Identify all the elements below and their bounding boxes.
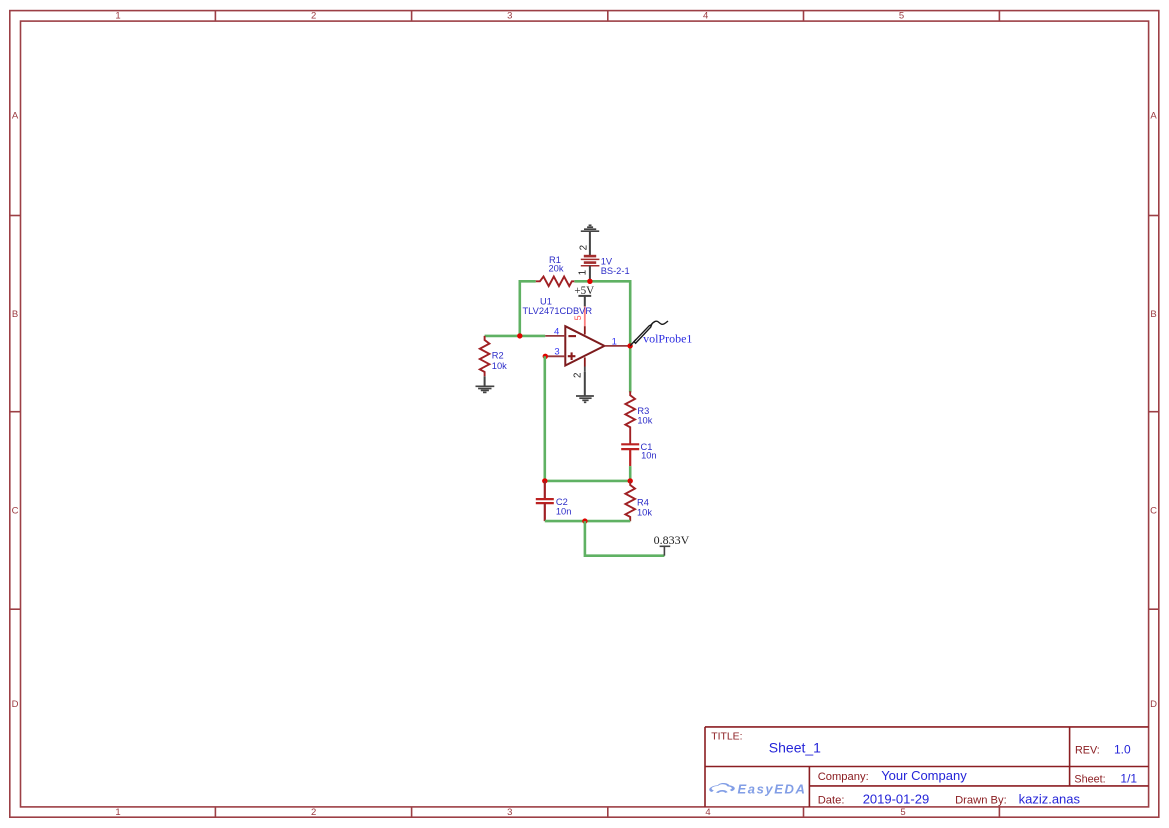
probe volProbe1 (630, 321, 668, 346)
svg-text:2019-01-29: 2019-01-29 (863, 791, 930, 806)
svg-text:Sheet_1: Sheet_1 (769, 740, 821, 756)
capacitor C2 10n (536, 481, 554, 521)
wire (R2 to ground) (484, 376, 486, 386)
svg-text:1: 1 (115, 11, 120, 22)
wire (R2 top to pin 4) (485, 335, 546, 338)
wire (battery pin 1 stem) (589, 266, 591, 282)
svg-text:Drawn By:: Drawn By: (955, 794, 1007, 806)
svg-text:2: 2 (573, 373, 584, 378)
svg-text:2: 2 (311, 11, 316, 22)
wire (pin 3 down to C2/R4 row) (543, 356, 546, 481)
resistor R1 20k (536, 277, 574, 287)
svg-text:TITLE:: TITLE: (711, 732, 742, 743)
wire (R1 left to feedback node) (520, 281, 536, 336)
EasyEDA logo (709, 781, 806, 796)
svg-text:C: C (12, 506, 19, 517)
svg-text:10k: 10k (492, 361, 507, 371)
op-amp body (565, 326, 604, 365)
svg-text:C: C (1150, 506, 1157, 517)
svg-text:5: 5 (573, 315, 583, 320)
svg-text:1/1: 1/1 (1120, 771, 1137, 785)
wire (R1 right to battery node to output column) (574, 281, 630, 392)
wire (bottom node to net flag) (585, 521, 665, 556)
capacitor C1 10n (621, 444, 639, 466)
junction (feedback / R2 / pin 4) (517, 333, 522, 338)
pin 1 (output) (604, 345, 628, 347)
svg-text:kaziz.anas: kaziz.anas (1019, 791, 1081, 806)
svg-text:5: 5 (900, 807, 905, 818)
svg-text:D: D (1150, 699, 1157, 710)
junction (battery / R1 / output column) (587, 279, 592, 284)
svg-text:EasyEDA: EasyEDA (738, 781, 807, 796)
svg-text:1: 1 (578, 270, 589, 275)
svg-text:3: 3 (554, 347, 559, 358)
pin 4 (inverting input) (545, 335, 565, 337)
svg-text:Date:: Date: (818, 794, 845, 806)
junction (C2 top) (542, 478, 547, 483)
svg-text:R2: R2 (492, 350, 504, 360)
svg-text:Your Company: Your Company (881, 768, 967, 783)
junction (pin 3 node) (543, 354, 548, 359)
svg-text:4: 4 (554, 326, 559, 337)
svg-text:B: B (12, 309, 18, 320)
svg-text:R4: R4 (637, 498, 649, 508)
svg-text:10n: 10n (641, 451, 657, 461)
resistor R4 10k (625, 481, 635, 521)
junction (output node) (627, 343, 632, 348)
wire (battery pin 2 stem) (589, 231, 591, 255)
wire (C2 node to R4 node) (545, 480, 630, 483)
svg-text:volProbe1: volProbe1 (643, 332, 692, 346)
svg-text:1: 1 (115, 807, 120, 818)
svg-text:5: 5 (899, 11, 904, 22)
svg-text:A: A (1150, 111, 1157, 122)
svg-text:3: 3 (507, 11, 512, 22)
svg-text:2: 2 (311, 807, 316, 818)
op-amp U1 TLV2471CDBVR (523, 297, 629, 378)
pin 3 (non-inverting input) (545, 355, 565, 357)
junction (bottom node) (582, 518, 587, 523)
ground (op-amp V-) (576, 396, 594, 402)
pin 2 (V-) (584, 357, 586, 366)
svg-text:1V: 1V (601, 256, 613, 266)
svg-text:10k: 10k (637, 416, 652, 426)
svg-text:2: 2 (579, 245, 590, 250)
svg-text:4: 4 (703, 11, 708, 22)
svg-text:Sheet:: Sheet: (1074, 773, 1105, 785)
wire (bottom row C2 to R4) (545, 520, 630, 523)
svg-text:REV:: REV: (1075, 745, 1100, 757)
svg-text:1: 1 (612, 336, 617, 347)
svg-text:4: 4 (705, 807, 710, 818)
svg-text:TLV2471CDBVR: TLV2471CDBVR (523, 306, 593, 316)
resistor R3 10k (625, 391, 635, 444)
wire (C1 to lower node) (629, 466, 632, 481)
svg-text:20k: 20k (549, 263, 564, 273)
svg-text:B: B (1150, 309, 1156, 320)
title block (705, 727, 1149, 807)
svg-text:D: D (12, 699, 19, 710)
svg-text:10k: 10k (637, 508, 652, 518)
pin 5 (V+) (584, 306, 586, 326)
svg-text:1.0: 1.0 (1114, 743, 1131, 757)
svg-text:3: 3 (507, 807, 512, 818)
net flag 0.833V (663, 546, 665, 555)
svg-text:A: A (12, 111, 19, 122)
ground (R2) (476, 386, 495, 392)
resistor R2 10k (480, 336, 490, 376)
junction (R4 top / C1 bottom) (628, 478, 633, 483)
svg-text:10n: 10n (556, 506, 572, 516)
wire (pin 2 to ground) (584, 372, 586, 396)
svg-text:BS-2-1: BS-2-1 (601, 266, 630, 276)
svg-text:0.833V: 0.833V (654, 533, 690, 547)
ground (top, battery pin 2) (581, 225, 599, 231)
svg-text:Company:: Company: (818, 771, 869, 783)
battery BS-2-1 1V (581, 256, 600, 266)
